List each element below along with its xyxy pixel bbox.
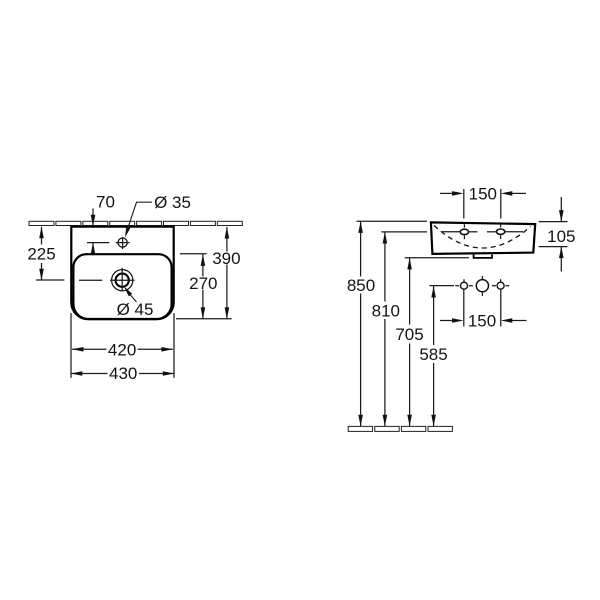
- mounting hole center: [476, 276, 488, 296]
- basin interior dashed curve: [434, 226, 531, 249]
- svg-text:390: 390: [212, 249, 240, 268]
- dimension 430: [71, 371, 175, 376]
- svg-text:105: 105: [547, 227, 575, 246]
- leader line for tap hole diameter: [125, 202, 152, 238]
- svg-text:270: 270: [189, 274, 217, 293]
- basin body (front view): [431, 222, 535, 254]
- dimension 270: [180, 254, 207, 319]
- leader line for drain diameter: [124, 286, 137, 302]
- wall hatch (plan view): [29, 221, 242, 225]
- tap holes centerline: [442, 231, 524, 233]
- basin outer outline (plan): [71, 227, 173, 320]
- dimension 150 bottom: [440, 289, 527, 326]
- svg-text:420: 420: [108, 341, 136, 360]
- svg-text:705: 705: [395, 325, 423, 344]
- mounting hole right: [492, 279, 509, 289]
- dimension 705: [405, 258, 469, 426]
- drain hole (plan): [79, 268, 135, 291]
- svg-text:430: 430: [109, 364, 137, 383]
- svg-text:850: 850: [347, 276, 375, 295]
- tap hole centerline tick: [87, 242, 109, 244]
- floor hatch (front view): [348, 426, 452, 431]
- svg-text:150: 150: [469, 185, 497, 204]
- svg-text:585: 585: [419, 345, 447, 364]
- svg-text:Ø 35: Ø 35: [154, 193, 191, 212]
- dimension 390: [176, 227, 232, 319]
- dimension 150 top: [440, 189, 526, 219]
- dimension 225: [36, 227, 64, 280]
- dimension 420: [72, 347, 173, 352]
- svg-text:225: 225: [27, 244, 55, 263]
- dimension 105: [539, 197, 568, 272]
- svg-text:70: 70: [96, 193, 115, 212]
- dimension 585: [429, 286, 454, 427]
- svg-text:810: 810: [372, 301, 400, 320]
- dimension 810: [381, 232, 427, 426]
- svg-text:Ø 45: Ø 45: [117, 300, 154, 319]
- dimension 850: [357, 221, 428, 426]
- mounting hole left: [455, 279, 473, 289]
- tap hole (plan): [116, 237, 130, 249]
- right tap hole (front): [496, 224, 504, 239]
- drain fitting (front): [474, 255, 492, 258]
- dimension 70 (wall to tap hole): [91, 209, 96, 256]
- basin inner rim (plan): [73, 254, 171, 319]
- svg-text:150: 150: [468, 312, 496, 331]
- left tap hole (front): [460, 224, 468, 239]
- extension lines for width dimensions: [71, 313, 174, 378]
